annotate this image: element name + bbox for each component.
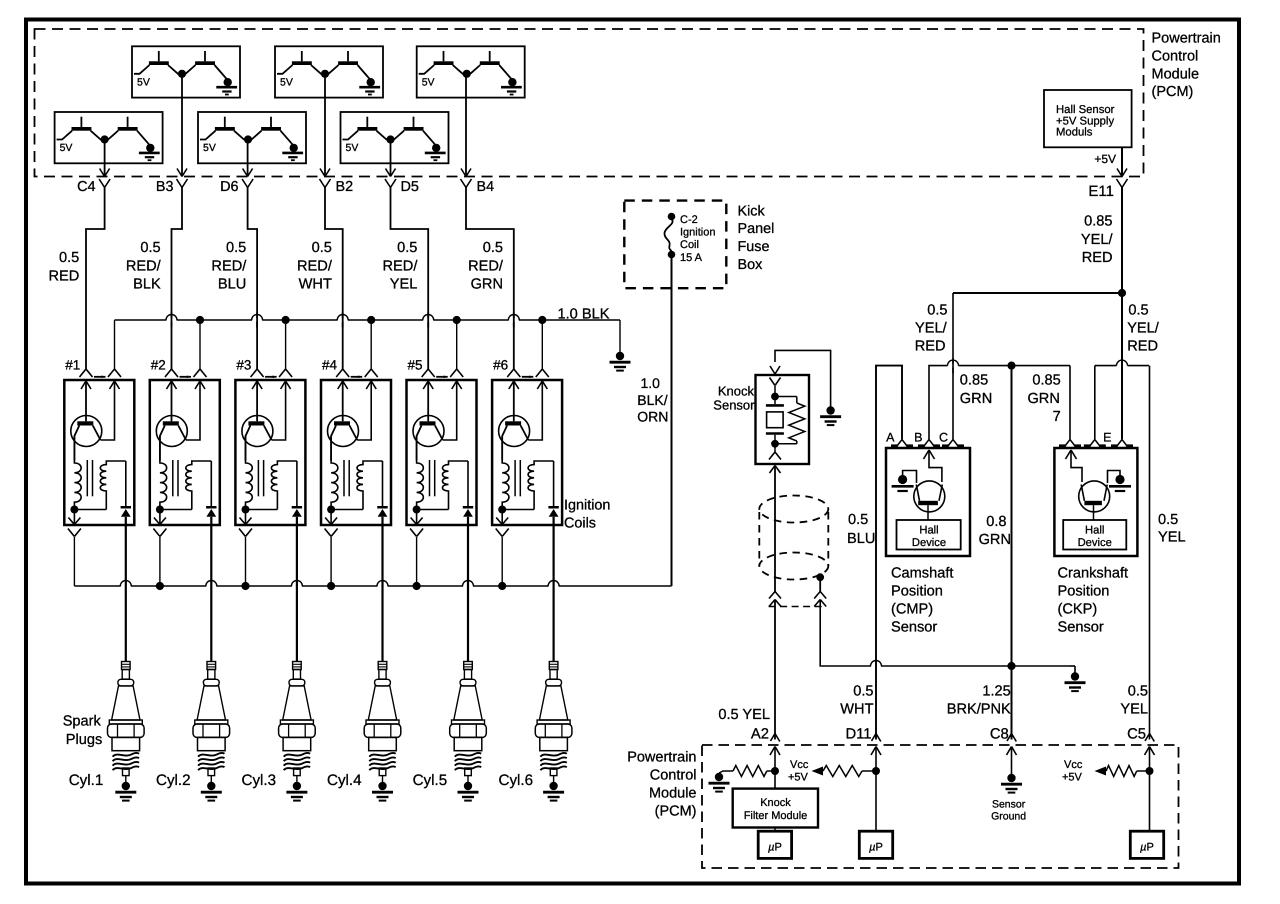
label Knock Sensor <box>713 384 755 413</box>
wire from coil #5 right input to transistor <box>443 381 457 440</box>
coil #1 input arrows <box>81 381 120 389</box>
svg-text:0.85: 0.85 <box>960 373 988 389</box>
ignition transformer T1 secondary winding <box>100 461 126 510</box>
PCM C5 input arrow <box>1145 747 1150 756</box>
junction on 1.0 BLK bus at coil #3 <box>282 316 290 324</box>
ignition transformer T6 primary winding <box>502 436 509 510</box>
transformer T1 core <box>86 460 88 496</box>
svg-text:#4: #4 <box>322 358 338 373</box>
diode D5 <box>463 506 473 525</box>
svg-text:Vcc: Vcc <box>790 759 809 771</box>
svg-text:0.5: 0.5 <box>853 684 873 700</box>
CKP hall-effect transistor and output <box>1066 450 1110 520</box>
label Hall Device (CMP) <box>912 525 946 550</box>
wire coil #2 output to bus <box>159 537 161 586</box>
transformer T6 core <box>514 460 516 496</box>
1.0 BLK bus hop over coil #6 control wire <box>509 318 519 322</box>
svg-text:YEL/: YEL/ <box>1081 232 1114 248</box>
spark plug 3 ground <box>286 776 307 801</box>
coil #5 input arrows <box>423 381 462 389</box>
supply bus hop over spark plug wire #6 <box>549 584 559 588</box>
svg-text:Module: Module <box>1152 66 1200 82</box>
junction sensor ground bus at BRK/PNK wire <box>1007 662 1015 670</box>
label Vcc +5V (C5) <box>1062 759 1083 784</box>
wire secondary top to diode in coil #2 <box>210 461 212 506</box>
quad-driver transistor module U5 (driver for coil outputs) <box>198 112 306 163</box>
junction +5V feed at E11 wire <box>1118 289 1126 297</box>
svg-text:#1: #1 <box>65 358 80 373</box>
PCM A2 input arrow <box>770 747 775 756</box>
wire 0.5 RED/GRN wire B4 to coil #6 <box>466 188 514 370</box>
svg-text:+5V: +5V <box>1094 152 1116 166</box>
wire secondary top to diode in coil #6 <box>553 461 555 506</box>
transistor Q1 in coil #1 <box>71 381 102 461</box>
Hall Sensor +5V Supply Module box <box>1044 90 1132 147</box>
sensor ground bus hop over CMP signal wire <box>871 664 881 668</box>
spark plug cylinder 3 <box>279 662 316 776</box>
svg-text:D5: D5 <box>401 179 419 195</box>
transformer T3 core <box>257 460 259 496</box>
wire coil #6 output to bus <box>501 537 503 586</box>
A2 wire inside PCM <box>774 747 776 789</box>
label 0.85 YEL/RED <box>1081 214 1114 267</box>
spark plug wire from coil #2 <box>210 525 212 662</box>
svg-text:RED/: RED/ <box>468 258 504 274</box>
svg-text:Cyl.1: Cyl.1 <box>69 772 104 789</box>
svg-text:+5V: +5V <box>1062 772 1083 784</box>
svg-text:A2: A2 <box>751 727 769 743</box>
coil #4 input connector forks <box>336 369 378 378</box>
junction coil #6 output on supply bus <box>498 582 506 590</box>
coil supply bus wire (bottom) <box>74 585 671 587</box>
wire secondary bottom to common node in coil #3 <box>246 509 278 511</box>
CMP hall-effect transistor and output <box>914 450 945 520</box>
spark plug cylinder 5 <box>450 662 487 776</box>
ignition transformer T1 primary winding <box>74 436 81 510</box>
C5 wire inside PCM <box>1149 747 1151 831</box>
svg-text:BLK/: BLK/ <box>637 392 667 408</box>
wire label 0.5 WHT <box>840 684 873 718</box>
coil #1 output wire and arrow <box>68 510 80 525</box>
ground for 1.0 BLK bus <box>616 352 624 360</box>
svg-text:WHT: WHT <box>299 277 332 293</box>
svg-text:Cyl.6: Cyl.6 <box>499 772 534 789</box>
PCM pin B4 output arrow <box>461 169 466 177</box>
svg-text:5V: 5V <box>203 142 216 154</box>
svg-text:0.5: 0.5 <box>1158 512 1178 528</box>
1.25 BRK/PNK wire to sensor ground <box>1011 366 1013 740</box>
PCM pin D6 output arrow <box>243 169 248 177</box>
svg-text:Control: Control <box>650 768 697 784</box>
wire secondary bottom to common node in coil #5 <box>417 509 449 511</box>
wire coil #3 output to bus <box>245 537 247 586</box>
coil #4 input arrows <box>338 381 377 389</box>
ignition coil #1 box <box>64 380 134 525</box>
supply bus hop over spark plug wire #5 <box>463 584 473 588</box>
junction coil #3 output on supply bus <box>241 582 249 590</box>
wire secondary bottom to common node in coil #2 <box>160 509 192 511</box>
wire from driver output to PCM pin D6 <box>247 140 249 176</box>
wire from 1.0 BLK bus down to coil #2 right input <box>199 320 201 369</box>
knock sensor bottom junction <box>771 440 779 448</box>
PCM pin A2 connector <box>771 734 780 742</box>
svg-text:Sensor: Sensor <box>891 619 937 635</box>
wire down to CKP pin 7 <box>1069 366 1071 439</box>
PCM pin B3 output arrow <box>177 169 182 177</box>
svg-text:Coil: Coil <box>680 239 699 251</box>
svg-text:GRN: GRN <box>960 391 992 407</box>
svg-text:Knock: Knock <box>718 384 755 399</box>
junction on 1.0 BLK bus at coil #6 <box>538 316 546 324</box>
connector D6 female fork <box>242 179 248 188</box>
spark plug wire from coil #5 <box>467 525 469 662</box>
quad-driver transistor module U6 (driver for coil outputs) <box>341 112 449 163</box>
sensor pin C <box>942 440 964 447</box>
svg-text:0.5: 0.5 <box>1128 303 1148 319</box>
spark plug wire from coil #6 <box>552 525 554 662</box>
spark plug 1 ground <box>115 776 136 801</box>
svg-text:C5: C5 <box>1127 727 1146 743</box>
spark plug 4 ground <box>372 776 393 801</box>
ground for knock sensor shield <box>826 406 834 414</box>
junction coil #5 output on supply bus <box>413 582 421 590</box>
wire from coil #3 right input to transistor <box>272 381 286 440</box>
svg-text:B: B <box>914 431 922 445</box>
label Hall Device (CKP) <box>1078 525 1112 550</box>
ignition transformer T4 primary winding <box>331 436 338 510</box>
svg-text:C4: C4 <box>77 179 95 195</box>
svg-text:µP: µP <box>869 842 883 854</box>
ignition coil #4 box <box>321 380 391 525</box>
coil #4 output connector fork <box>325 529 332 537</box>
wire from driver output to PCM pin D5 <box>390 140 392 176</box>
sensor pin <box>1059 440 1081 447</box>
svg-text:#6: #6 <box>493 358 508 373</box>
svg-text:µP: µP <box>768 842 782 854</box>
0.5 BLU wire knock sensor to shield <box>774 466 776 593</box>
ignition coil #6 box <box>492 380 562 525</box>
wire Knock Filter Module to microprocessor <box>774 828 776 831</box>
svg-text:RED: RED <box>915 339 946 355</box>
svg-text:1.25: 1.25 <box>982 684 1010 700</box>
coil #3 output connector fork <box>239 529 246 537</box>
1.0 BLK bus hop over coil #5 control wire <box>423 318 433 322</box>
svg-text:#3: #3 <box>236 358 251 373</box>
svg-text:1.0 BLK: 1.0 BLK <box>558 307 610 323</box>
wire 0.5 RED wire C4 to coil #1 <box>86 188 105 370</box>
diode D2 <box>206 506 216 525</box>
junction node in coil #1 <box>70 506 78 514</box>
svg-text:RED/: RED/ <box>126 258 162 274</box>
junction on 1.0 BLK bus at coil #2 <box>196 316 204 324</box>
svg-text:Hall: Hall <box>1085 525 1104 537</box>
connector B4 female fork <box>461 179 467 188</box>
label Kick Panel Fuse Box <box>738 203 775 273</box>
PCM C8 input arrow <box>1007 747 1012 756</box>
svg-text:Sensor: Sensor <box>1058 619 1104 635</box>
label Ignition Coils <box>564 498 610 532</box>
svg-text:Cyl.2: Cyl.2 <box>156 772 191 789</box>
svg-text:Device: Device <box>1078 537 1112 549</box>
quad-driver transistor module U3 (driver for coil outputs) <box>417 46 525 97</box>
wire label 0.5 RED <box>48 250 79 285</box>
label 0.8 GRN <box>979 514 1011 548</box>
CKP pin E jumper wire with hop over YEL/RED <box>1095 360 1149 365</box>
ignition transformer T3 secondary winding <box>271 461 297 510</box>
svg-text:0.5: 0.5 <box>140 240 160 256</box>
label 0.5 YEL/RED (right) <box>1127 303 1160 355</box>
CKP pin E wire up to jumper <box>1094 366 1096 439</box>
PCM (top) dashed enclosure box <box>35 29 1144 177</box>
svg-text:ORN: ORN <box>637 409 668 425</box>
svg-text:5V: 5V <box>60 142 73 154</box>
label 0.5 BLU <box>847 512 875 547</box>
svg-text:RED/: RED/ <box>211 258 247 274</box>
svg-text:YEL/: YEL/ <box>915 321 948 337</box>
wire from coil #4 right input to transistor <box>357 381 371 440</box>
label 0.85 GRN circuit 7 (CKP) <box>1027 373 1060 426</box>
PCM pin D11 connector <box>872 734 881 742</box>
wire label 0.5 RED/BLK <box>126 240 162 293</box>
coil #3 input arrows <box>252 381 291 389</box>
spark plug 6 ground <box>543 776 564 801</box>
knock harness connector chevrons <box>769 592 827 607</box>
svg-text:Powertrain: Powertrain <box>1152 31 1221 47</box>
+5V feed wire from E11 to sensors <box>953 292 1122 294</box>
svg-text:(CKP): (CKP) <box>1058 601 1098 617</box>
supply bus hop over spark plug wire #1 <box>121 584 131 588</box>
wire from driver output to PCM pin B2 <box>324 74 326 176</box>
supply bus hop over spark plug wire #3 <box>292 584 302 588</box>
coil #6 input connector forks <box>507 369 549 378</box>
1.0 BLK bus hop over coil #4 control wire <box>338 318 348 322</box>
wire from fuse to coil supply bus <box>671 258 673 586</box>
svg-text:(PCM): (PCM) <box>1152 84 1194 100</box>
svg-text:Hall: Hall <box>919 525 938 537</box>
wire coil #1 output to bus <box>73 537 75 586</box>
svg-text:#5: #5 <box>407 358 422 373</box>
svg-text:GRN: GRN <box>979 532 1011 548</box>
Knock Filter Module box <box>733 789 818 828</box>
spark plug wire from coil #4 <box>381 525 383 662</box>
svg-text:0.5: 0.5 <box>59 250 79 266</box>
svg-text:Crankshaft: Crankshaft <box>1058 565 1129 581</box>
svg-text:5V: 5V <box>137 76 150 88</box>
wire coil #5 output to bus <box>416 537 418 586</box>
spark plug cylinder 2 <box>193 662 230 776</box>
svg-text:Vcc: Vcc <box>1064 759 1083 771</box>
svg-text:C-2: C-2 <box>680 214 698 226</box>
coil #5 output wire and arrow <box>411 510 423 525</box>
svg-text:BRK/PNK: BRK/PNK <box>947 701 1011 717</box>
wire from coil #1 right input to transistor <box>101 381 115 440</box>
svg-text:BLK: BLK <box>133 277 161 293</box>
label Sensor Ground <box>991 799 1026 823</box>
svg-text:BLU: BLU <box>847 531 875 547</box>
svg-text:Powertrain: Powertrain <box>627 750 696 766</box>
label Vcc +5V (D11) <box>788 759 809 784</box>
diode D3 <box>292 506 302 525</box>
svg-text:C: C <box>939 431 948 445</box>
wire from driver output to PCM pin C4 <box>104 140 106 176</box>
resistor in knock sensor <box>775 397 805 444</box>
svg-text:7: 7 <box>1053 409 1061 425</box>
svg-text:Spark: Spark <box>63 714 102 730</box>
ignition transformer T5 primary winding <box>417 436 424 510</box>
coil #5 output connector fork <box>410 529 417 537</box>
label Spark Plugs <box>63 714 103 748</box>
coil #5 input connector forks <box>422 369 464 378</box>
svg-text:WHT: WHT <box>840 701 873 717</box>
svg-text:Fuse: Fuse <box>738 239 770 255</box>
PCM pin B2 output arrow <box>320 169 325 177</box>
ignition transformer T6 secondary winding <box>528 461 554 510</box>
transistor Q3 in coil #3 <box>242 381 273 461</box>
0.5 YEL/RED wire to CMP pin C <box>952 293 954 439</box>
junction D11 pull-up <box>872 767 880 775</box>
svg-text:D11: D11 <box>845 727 871 743</box>
junction coil #4 output on supply bus <box>327 582 335 590</box>
supply bus hop over spark plug wire #2 <box>206 584 216 588</box>
spark plug cylinder 4 <box>364 662 401 776</box>
coil #3 output wire and arrow <box>240 510 252 525</box>
coil #6 output connector fork <box>496 529 503 537</box>
wire 0.5 RED/BLU wire D6 to coil #3 <box>248 188 258 370</box>
diode D4 <box>377 506 387 525</box>
svg-text:A: A <box>886 431 895 445</box>
D11 wire inside PCM <box>875 747 877 831</box>
spark plug 5 ground <box>458 776 479 801</box>
svg-text:Module: Module <box>649 786 697 802</box>
transformer T4 core <box>343 460 345 496</box>
coil #1 output connector fork <box>68 529 75 537</box>
svg-text:Cyl.5: Cyl.5 <box>413 772 448 789</box>
svg-text:0.5: 0.5 <box>483 240 503 256</box>
ignition coil #3 box <box>235 380 305 525</box>
Hall Device box in CMP <box>897 520 961 550</box>
1.0 BLK bus hop over coil #2 control wire <box>167 318 177 322</box>
quad-driver transistor module U4 (driver for coil outputs) <box>55 112 163 163</box>
svg-text:0.5: 0.5 <box>848 512 868 528</box>
ignition transformer T3 primary winding <box>246 436 253 510</box>
svg-text:0.5: 0.5 <box>927 303 947 319</box>
svg-text:Kick: Kick <box>738 203 766 219</box>
svg-text:E: E <box>1103 431 1111 445</box>
svg-text:0.5: 0.5 <box>312 240 332 256</box>
svg-text:Hall Sensor: Hall Sensor <box>1056 104 1115 116</box>
svg-text:(CMP): (CMP) <box>891 601 933 617</box>
PCM pin C4 output arrow <box>100 169 105 177</box>
svg-text:C8: C8 <box>990 727 1009 743</box>
microprocessor box (CKP) <box>1130 831 1163 858</box>
wire label 0.5 RED/GRN <box>468 240 504 293</box>
junction on 1.0 BLK bus at coil #4 <box>367 316 375 324</box>
CKP internal ground <box>1108 471 1132 492</box>
svg-text:Coils: Coils <box>564 516 596 532</box>
pull-down resistor on A2 <box>719 766 775 777</box>
coil #2 output wire and arrow <box>154 510 166 525</box>
ignition coil #2 box <box>150 380 220 525</box>
svg-text:(PCM): (PCM) <box>655 804 697 820</box>
label 0.5 YEL (CKP output) <box>1158 512 1186 546</box>
pull-up resistor on C5 to Vcc <box>1095 766 1150 777</box>
label 1.0 BLK/ORN <box>637 375 668 425</box>
svg-text:0.85: 0.85 <box>1084 214 1112 230</box>
connector B3 female fork <box>177 179 183 188</box>
svg-text:Ground: Ground <box>991 811 1026 823</box>
diode D1 <box>121 506 131 525</box>
svg-text:RED/: RED/ <box>297 258 333 274</box>
Hall Device box in CKP <box>1063 520 1126 550</box>
svg-text:0.5: 0.5 <box>397 240 417 256</box>
label Camshaft Position (CMP) Sensor <box>891 565 953 635</box>
transformer T5 core <box>429 460 431 496</box>
wire from driver output to PCM pin B3 <box>181 74 183 176</box>
spark plug cylinder 6 <box>535 662 572 776</box>
coil #3 input connector forks <box>251 369 293 378</box>
svg-text:RED/: RED/ <box>383 258 419 274</box>
svg-text:#2: #2 <box>151 358 166 373</box>
supply bus hop over spark plug wire #4 <box>378 584 388 588</box>
wire from 1.0 BLK bus down to coil #4 right input <box>370 320 372 369</box>
ignition coil #5 box <box>407 380 477 525</box>
sensor pin A <box>891 440 913 447</box>
quad-driver transistor module U2 (driver for coil outputs) <box>275 46 383 97</box>
knock sensor output wire and fork <box>769 444 781 460</box>
connector B2 female fork <box>320 179 326 188</box>
wire 0.5 RED/BLK wire B3 to coil #2 <box>172 188 183 370</box>
svg-text:1.0: 1.0 <box>641 375 661 391</box>
wire label 0.5 RED/YEL <box>383 240 419 293</box>
svg-text:B2: B2 <box>336 179 354 195</box>
junction A2 pull-down <box>771 767 779 775</box>
svg-text:Cyl.4: Cyl.4 <box>327 772 362 789</box>
coil #4 output wire and arrow <box>325 510 337 525</box>
wire secondary top to diode in coil #4 <box>382 461 384 506</box>
svg-text:5V: 5V <box>346 142 359 154</box>
coil #2 input arrows <box>167 381 206 389</box>
Knock Sensor box <box>756 375 810 464</box>
PCM (bottom) dashed enclosure box <box>702 745 1179 868</box>
spark plug wire from coil #3 <box>296 525 298 662</box>
svg-text:5V: 5V <box>280 76 293 88</box>
knock sensor internal connector fork <box>770 378 781 397</box>
junction node in coil #4 <box>327 506 335 514</box>
svg-text:Moduls: Moduls <box>1056 127 1093 139</box>
spark plug cylinder 1 <box>108 662 145 776</box>
wire from 1.0 BLK bus down to coil #6 right input <box>541 320 543 369</box>
junction node in coil #6 <box>498 506 506 514</box>
ground Sensor Ground C8 <box>1007 774 1015 782</box>
shielded cable (dashed shield cylinder) <box>759 496 828 580</box>
svg-text:YEL: YEL <box>1120 701 1148 717</box>
wire 0.5 RED/WHT wire B2 to coil #4 <box>325 188 343 370</box>
CMP pin A return loop wire <box>876 366 902 740</box>
junction coil #2 output on supply bus <box>156 582 164 590</box>
svg-text:Ignition: Ignition <box>680 227 715 239</box>
wire secondary bottom to common node in coil #1 <box>74 509 106 511</box>
svg-text:µP: µP <box>1140 842 1154 854</box>
sensor pin E <box>1084 440 1106 447</box>
svg-text:+5V: +5V <box>788 772 809 784</box>
C8 wire inside PCM <box>1011 747 1013 775</box>
coil #2 output connector fork <box>153 529 160 537</box>
knock sensor shield wire to ground (top) <box>775 350 831 407</box>
label Crankshaft Position (CKP) Sensor <box>1058 565 1129 635</box>
junction node in coil #2 <box>156 506 164 514</box>
spark plug wire from coil #1 <box>125 525 127 662</box>
svg-text:Panel: Panel <box>738 221 775 237</box>
